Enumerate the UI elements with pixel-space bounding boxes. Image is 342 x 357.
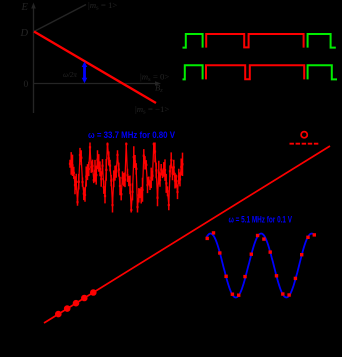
laser readout pulse row2 (green): [308, 65, 337, 79]
inset data points (red squares): [206, 231, 317, 297]
data dots of noisy trace: [69, 143, 184, 211]
error bars of noisy trace: [70, 143, 183, 213]
laser readout pulse row1 (green): [308, 34, 336, 48]
pulse sequence row 2: [183, 65, 338, 79]
svg-text:ω = 5.1 MHz for 0.1 V: ω = 5.1 MHz for 0.1 V: [229, 215, 293, 225]
x axis / ms=0 level: [34, 83, 158, 85]
svg-text:0: 0: [24, 80, 29, 90]
pulse sequence row 1: [183, 34, 336, 48]
inset cosine fit curve (blue): [207, 234, 315, 298]
data point 4: [81, 295, 88, 302]
x axis arrowhead: [155, 81, 161, 86]
svg-text:D: D: [20, 28, 29, 39]
level ms=+1 line: [34, 5, 86, 32]
y axis arrowhead: [31, 3, 36, 9]
laser init pulse row2 (green): [183, 65, 203, 79]
level ms=-1 line (red): [34, 32, 156, 104]
dashed level line at 33.7 MHz: [290, 143, 320, 145]
energy-level diagram axes: [31, 3, 161, 114]
svg-text:|ms = 0>: |ms = 0>: [140, 72, 169, 83]
svg-text:ω = 33.7 MHz for 0.80 V: ω = 33.7 MHz for 0.80 V: [88, 130, 176, 140]
svg-text:|ms = 1>: |ms = 1>: [88, 0, 117, 11]
laser init pulse row1 (green): [183, 34, 203, 48]
y axis E: [33, 6, 35, 113]
data point 3: [73, 300, 80, 307]
MW pulses row2 (red): [206, 65, 304, 79]
linear fit line (main plot): [44, 146, 330, 323]
data point 5: [90, 289, 97, 296]
svg-text:|ms = −1>: |ms = −1>: [135, 104, 169, 115]
data point V=0.1: [55, 311, 62, 318]
MW pulses row1 (red): [206, 34, 303, 48]
data point 2: [64, 305, 71, 312]
noisy Rabi oscillation trace: [70, 144, 183, 210]
svg-text:E: E: [21, 2, 29, 13]
data point V=0.80 (open circle): [301, 132, 307, 138]
transition arrow (blue double arrow): [82, 62, 88, 84]
svg-text:ω/2π: ω/2π: [63, 71, 77, 79]
